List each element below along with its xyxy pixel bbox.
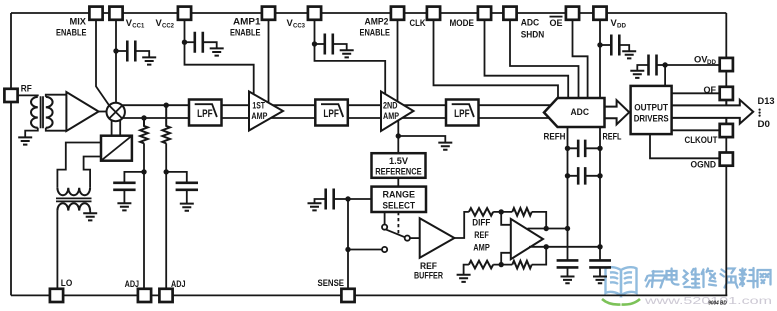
node REFH cap A [565, 146, 570, 151]
pin OF [720, 87, 733, 100]
svg-text:RANGE: RANGE [383, 190, 416, 200]
wire sense junction to switch [348, 249, 382, 251]
wire CLKOUT [672, 129, 720, 131]
wire REFH to cap A [568, 147, 601, 149]
pin CLKOUT [720, 124, 733, 137]
wire feedback top to output [532, 212, 547, 229]
label REF BUFFER [414, 261, 444, 281]
svg-text:LPF: LPF [197, 108, 213, 120]
wire phase shifter to LO transformer outer [57, 143, 101, 188]
wire 2nd amp to LPF3 minus [402, 117, 446, 119]
wire VCC1 down to mixer [115, 20, 117, 104]
wire T2 secondary to ground [89, 211, 91, 214]
svg-text:ADJ: ADJ [125, 279, 140, 289]
wire LPF2 to 2nd amp plus [348, 104, 381, 106]
wire 2nd amp to LPF3 plus [404, 104, 446, 106]
wire T1 secondary bottom to amp [46, 128, 67, 131]
node ADJ2 capacitor junction [164, 169, 169, 174]
label OE with overline [550, 17, 563, 28]
node reference tap junction [396, 133, 401, 138]
capacitor OVDD bypass [649, 55, 657, 76]
transformer T1 secondary [46, 97, 53, 128]
svg-text:DD: DD [707, 59, 716, 66]
wire sense vertical [347, 199, 349, 289]
wire preamp to mixer [99, 111, 107, 113]
ground ADJ1 capacitor [117, 203, 131, 210]
svg-text:CLKOUT: CLKOUT [685, 135, 719, 145]
svg-text:MIX: MIX [70, 17, 87, 27]
wire range select switch control dashed [397, 212, 399, 235]
svg-text:CC2: CC2 [162, 23, 174, 30]
wire ADJ2 junction to capacitor [166, 172, 187, 182]
wire LPF2 to 2nd amp minus [348, 117, 381, 119]
wire tap junction to ground [398, 136, 445, 143]
node mixer plus tap [164, 103, 169, 108]
wire VCC1 capacitor to ground [135, 51, 149, 57]
phase shifter LO quad [101, 136, 132, 161]
block 1.5V REFERENCE [372, 153, 426, 178]
ground OVDD bypass [630, 71, 644, 78]
wire VCC3 capacitor to ground [333, 44, 347, 50]
svg-text:REFERENCE: REFERENCE [375, 166, 422, 176]
ADC block [544, 98, 605, 127]
wire OVDD to capacitor [657, 64, 666, 66]
wire REFH vertical [567, 127, 569, 260]
wire VDD to ADC [599, 20, 601, 98]
capacitor REFL bulk [589, 260, 611, 267]
wire ADJ1 capacitor to ground [123, 190, 125, 203]
capacitor ADJ2 [176, 183, 198, 190]
wire range select to sense node [348, 198, 372, 200]
wire OGND [650, 134, 720, 158]
wire LPF3 to ADC minus [479, 117, 550, 119]
svg-text:AMP: AMP [251, 111, 267, 121]
label AMP2 ENABLE [360, 17, 391, 38]
wire T1 primary to ground [25, 128, 38, 138]
wire phase shifter to LO transformer inner [84, 157, 101, 188]
capacitor REFH bulk [557, 260, 579, 267]
wire AMP2 ENABLE down [397, 20, 399, 102]
wire chip border right lower [725, 118, 727, 296]
wire AMP1 ENABLE down [268, 20, 270, 103]
svg-text:CC1: CC1 [132, 23, 144, 30]
pin OE [566, 7, 579, 20]
ground REFH cap [561, 277, 575, 284]
svg-text:AMP1: AMP1 [233, 17, 261, 27]
wire LPF1 to 1st amp minus [222, 117, 250, 119]
wire chip border right upper [725, 13, 727, 105]
wire VCC2 down [185, 20, 254, 95]
node diff amp minus junction [499, 262, 504, 267]
wire sense junction to capacitor [334, 198, 348, 200]
svg-text:1ST: 1ST [252, 101, 265, 111]
transformer T2 secondary [57, 203, 90, 210]
pin ADJ1 [138, 289, 151, 302]
svg-text:1.5V: 1.5V [389, 156, 409, 166]
wire 1st amp to LPF2 plus [273, 104, 315, 106]
wire VDD to capacitor [600, 44, 611, 46]
wire 2nd amp tap down [397, 121, 399, 153]
wire ground to bottom resistor [464, 265, 469, 275]
svg-text:AMP2: AMP2 [365, 17, 389, 27]
wire 1st amp to LPF2 minus [271, 117, 316, 119]
pin MODE [478, 7, 491, 20]
pin OGND [720, 153, 733, 166]
svg-text:LPF: LPF [323, 108, 339, 120]
svg-text:OGND: OGND [691, 160, 717, 170]
pin SENSE [341, 289, 354, 302]
ground T1 primary [18, 137, 32, 144]
wire plus junction into amp [501, 212, 511, 225]
capacitor VCC2 bypass [195, 32, 203, 53]
resistor diff amp feedback top [512, 208, 531, 216]
amplifier RF preamp [66, 92, 98, 131]
wire mixer output minus [122, 117, 189, 119]
svg-text:ADC: ADC [521, 18, 540, 28]
ground VCC3 bypass [340, 50, 354, 57]
label VDD [611, 17, 627, 30]
wire resistor ADJ1 to pin [143, 143, 145, 288]
svg-text:2ND: 2ND [383, 101, 398, 111]
label ADC SHDN [521, 18, 545, 40]
wire to diff amp minus input [493, 264, 512, 266]
wire chip border top [11, 12, 726, 14]
svg-text:AMP: AMP [473, 243, 490, 253]
wire to diff amp plus input [493, 211, 512, 213]
node VDD bypass junction [597, 42, 602, 47]
wire REFL cap to ground [599, 267, 601, 276]
capacitor sense bypass [326, 189, 334, 210]
label VCC2 [156, 17, 175, 30]
label AMP1 ENABLE [230, 17, 261, 38]
op-amp 2ND AMP [381, 92, 414, 132]
svg-text:DD: DD [617, 23, 626, 30]
wire MODE to ADC [485, 20, 569, 98]
wire mixer to phase shifter [112, 120, 121, 135]
node ellipsis dots [759, 109, 761, 117]
capacitor reference A [578, 140, 585, 158]
pin RF [4, 89, 17, 102]
node REFH cap B [565, 173, 570, 178]
label OVDD [694, 54, 716, 67]
wire chip border bottom [11, 294, 727, 296]
pin VDD [593, 7, 606, 20]
pin OVDD [720, 58, 733, 71]
resistor ADJ2 [162, 105, 170, 143]
svg-text:ADC: ADC [571, 107, 590, 118]
svg-text:DIFF: DIFF [472, 217, 491, 227]
pin LO [50, 289, 63, 302]
capacitor VDD bypass [611, 35, 619, 56]
wire OF [672, 92, 720, 94]
pin AMP2 ENABLE [391, 7, 404, 20]
switch S1 [382, 225, 410, 253]
svg-text:ENABLE: ENABLE [360, 28, 391, 38]
svg-text:REFH: REFH [544, 132, 566, 142]
wire VCC2 capacitor to ground [203, 42, 217, 48]
resistor diff amp input top [469, 208, 493, 216]
node VCC1 bypass junction [113, 48, 118, 53]
node output refl feedback [544, 244, 549, 249]
wire RF input [18, 94, 38, 97]
wire ADJ1 junction to capacitor [124, 172, 144, 182]
svg-text:D13: D13 [758, 95, 775, 106]
node OVDD junction [662, 62, 667, 67]
wire VCC3 to capacitor [315, 43, 325, 45]
svg-text:D0: D0 [758, 118, 771, 129]
node sense lower junction [345, 247, 350, 252]
pin CLK [427, 7, 440, 20]
op-amp 1ST AMP [249, 92, 283, 131]
svg-text:9004 BD: 9004 BD [708, 301, 727, 307]
block RANGE SELECT [372, 187, 427, 212]
svg-text:OUTPUT: OUTPUT [634, 103, 668, 113]
ground VDD bypass [622, 51, 636, 58]
svg-text:CLK: CLK [410, 18, 427, 28]
wire resistor ADJ2 to pin [165, 143, 167, 288]
wire OVDD [665, 64, 720, 66]
svg-text:DRIVERS: DRIVERS [634, 113, 669, 123]
wire OF pin stub to bus [725, 100, 727, 105]
svg-text:AMP: AMP [383, 111, 399, 121]
svg-text:OF: OF [704, 85, 717, 95]
pin AMP1 ENABLE [262, 7, 275, 20]
label DIFF REF AMP [472, 217, 491, 252]
capacitor ADJ1 [113, 183, 135, 190]
wire T2 secondary to LO pin [56, 211, 58, 289]
svg-text:OE: OE [550, 18, 563, 28]
wire VDD capacitor to ground [619, 45, 629, 51]
pin VCC2 [178, 7, 191, 20]
transformer T1 core [41, 96, 43, 128]
decorative watermark (not labelled further) [606, 267, 637, 295]
svg-text:RF: RF [21, 83, 33, 93]
wire T1 secondary top to amp [46, 95, 67, 97]
wire REFH cap to ground [567, 267, 569, 276]
wire minus junction into amp [501, 253, 511, 265]
pin VCC3 [308, 7, 321, 20]
ground VCC1 bypass [142, 57, 156, 64]
node diff amp plus junction [499, 209, 504, 214]
node mixer minus tap [141, 115, 146, 120]
node REFL cap B [597, 173, 602, 178]
arrow data bus D13-D0 [672, 100, 754, 124]
ground sense bypass [308, 203, 322, 210]
ground reference tap [438, 143, 452, 150]
pin VCC1 [109, 7, 122, 20]
filter LPF3 [446, 100, 479, 126]
wire diff amp output to REFL [529, 246, 600, 248]
filter LPF1 [189, 100, 222, 126]
label VCC1 [126, 17, 145, 30]
wire reference to range select [397, 178, 399, 187]
pin MIX ENABLE [89, 7, 102, 20]
wire feedback bottom to output [532, 247, 547, 265]
node VCC2 bypass junction [182, 40, 187, 45]
ground ADJ2 capacitor [180, 204, 194, 211]
mixer M1 [107, 103, 125, 121]
node ADJ1 capacitor junction [141, 169, 146, 174]
wire ref buffer output up [454, 212, 469, 238]
wire CLK to ADC [434, 20, 559, 98]
svg-text:ENABLE: ENABLE [56, 28, 87, 38]
wire mixer output plus [122, 104, 190, 106]
resistor diff amp feedback bottom [512, 261, 531, 269]
svg-text:CC3: CC3 [293, 23, 305, 30]
svg-text:BUFFER: BUFFER [414, 271, 444, 281]
wire MIX ENABLE [96, 20, 109, 106]
wire range select to switch throw [384, 212, 386, 224]
node REFL diff amp junction [597, 244, 602, 249]
resistor diff amp input bottom [469, 261, 493, 269]
wire ADC SHDN to ADC [510, 20, 579, 98]
block OUTPUT DRIVERS [631, 86, 672, 134]
node output refh feedback [544, 226, 549, 231]
wire VCC3 down [315, 20, 386, 95]
label VCC3 [287, 17, 306, 30]
wire OVDD capacitor to ground [637, 65, 648, 71]
svg-text:SELECT: SELECT [383, 200, 416, 210]
transformer T2 core [56, 198, 92, 201]
capacitor VCC1 bypass [127, 41, 135, 62]
pin ADC SHDN [503, 7, 516, 20]
svg-text:MODE: MODE [450, 18, 475, 28]
wire VCC1 to capacitor [116, 50, 127, 52]
capacitor reference B [578, 167, 585, 185]
wire OE to ADC [573, 20, 588, 98]
node REFL cap A [597, 146, 602, 151]
capacitor VCC3 bypass [325, 34, 333, 55]
resistor ADJ1 [140, 118, 148, 143]
ground diff amp bottom [457, 275, 471, 282]
ground VCC2 bypass [210, 48, 224, 55]
op-amp DIFF REF AMP [511, 219, 543, 259]
arrow ADC to output drivers [605, 100, 630, 124]
svg-text:REF: REF [474, 230, 489, 240]
wire REFH to cap B [568, 175, 601, 177]
wire switch to ref buffer [410, 237, 420, 239]
transformer T2 primary [57, 188, 90, 195]
wire LPF3 to ADC plus [479, 104, 551, 106]
node REFH diff amp junction [565, 226, 570, 231]
transformer T1 primary [31, 97, 38, 128]
op-amp REF BUFFER [420, 218, 455, 258]
wire diff amp output to REFH [528, 228, 568, 230]
wire sense capacitor to ground [315, 199, 326, 203]
pin ADJ2 [159, 289, 172, 302]
label MIX ENABLE [56, 17, 87, 38]
svg-text:SHDN: SHDN [521, 30, 545, 40]
svg-text:ADJ: ADJ [171, 279, 186, 289]
ground REFL cap [593, 277, 607, 284]
svg-text:ENABLE: ENABLE [230, 28, 261, 38]
svg-text:LPF: LPF [454, 108, 470, 120]
filter LPF2 [315, 100, 348, 126]
svg-text:LO: LO [61, 278, 73, 288]
wire VCC2 to capacitor [185, 41, 195, 43]
node sense upper junction [345, 196, 350, 201]
wire REFL vertical [599, 127, 601, 260]
ground T2 secondary [83, 213, 97, 220]
node VCC3 bypass junction [312, 41, 317, 46]
svg-text:REF: REF [420, 261, 438, 271]
wire chip border left [10, 13, 12, 295]
svg-text:SENSE: SENSE [318, 278, 345, 288]
svg-text:REFL: REFL [603, 132, 623, 142]
wire CLKOUT pin stub to bus [725, 118, 727, 124]
wire LPF1 to 1st amp plus [222, 104, 250, 106]
wire ADJ2 capacitor to ground [186, 190, 188, 204]
wire OVDD junction to output drivers [664, 65, 666, 86]
